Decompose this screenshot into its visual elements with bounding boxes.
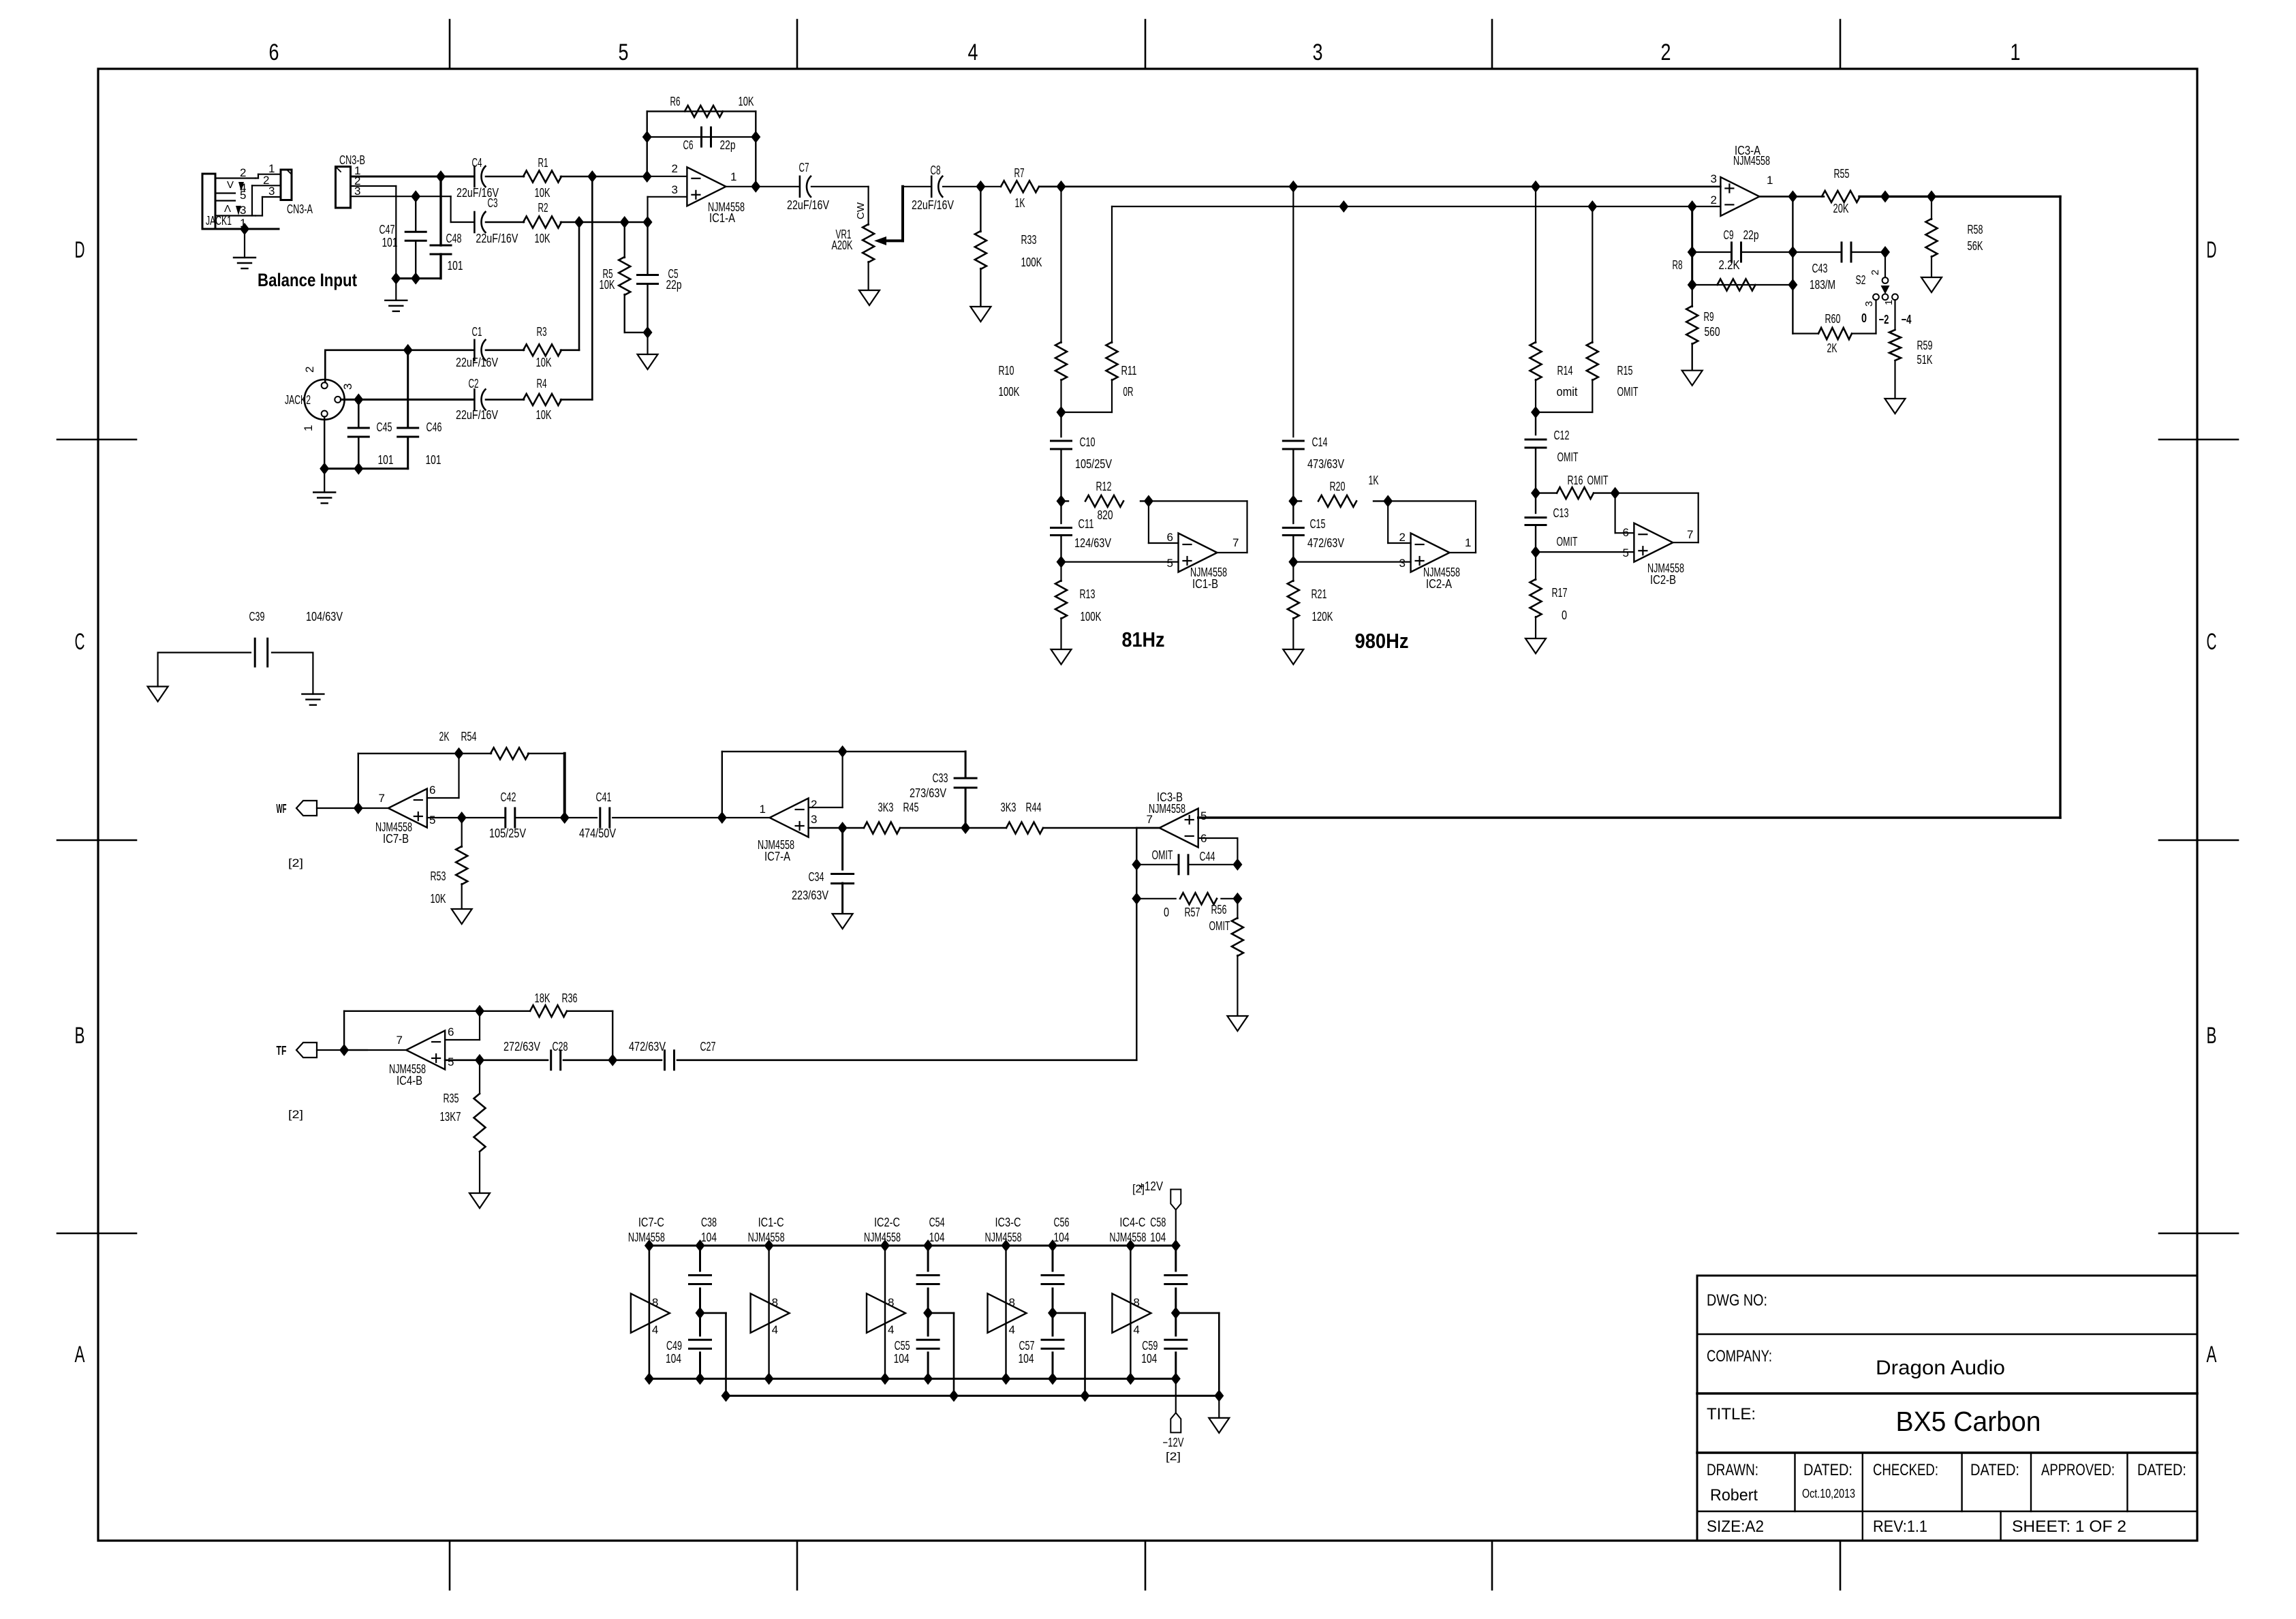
svg-text:R54: R54 xyxy=(461,730,477,743)
svg-text:[2]: [2] xyxy=(288,1108,303,1121)
resistor R59 xyxy=(1894,300,1895,330)
svg-text:100K: 100K xyxy=(999,385,1020,399)
S2 arrow xyxy=(1881,286,1890,294)
svg-text:100K: 100K xyxy=(1021,256,1042,269)
svg-text:IC1-C: IC1-C xyxy=(758,1216,784,1229)
resistor R56 xyxy=(1237,899,1238,919)
capacitor C54 xyxy=(917,1274,939,1276)
svg-text:R53: R53 xyxy=(431,869,446,883)
capacitor C8 xyxy=(903,186,931,187)
svg-text:4: 4 xyxy=(1009,1323,1015,1336)
junction gnd net b xyxy=(411,273,420,285)
svg-text:C59: C59 xyxy=(1142,1339,1158,1353)
svg-text:A20K: A20K xyxy=(832,238,853,252)
svg-text:6: 6 xyxy=(1167,531,1173,544)
junction C55 bottom xyxy=(923,1372,933,1385)
wire C58 mid jog xyxy=(1176,1312,1220,1314)
connector JACK2 xyxy=(305,380,345,420)
svg-text:7: 7 xyxy=(1687,528,1693,541)
junction IC3-C top xyxy=(1002,1239,1011,1252)
svg-text:NJM4558: NJM4558 xyxy=(748,1231,785,1244)
wire CN3-B pin1 to C4 xyxy=(351,176,475,178)
resistor R9 xyxy=(1691,285,1692,307)
junction C59 bottom xyxy=(1171,1372,1181,1385)
junction IC7-A out node xyxy=(717,812,727,824)
svg-text:2: 2 xyxy=(240,166,246,179)
wire IC2-A pin3 xyxy=(1293,561,1410,562)
svg-text:C28: C28 xyxy=(553,1040,568,1053)
wire C38 mid jog xyxy=(700,1312,726,1314)
svg-text:2.2K: 2.2K xyxy=(1719,258,1740,272)
op-amp IC3-C xyxy=(988,1293,1027,1333)
svg-text:R12: R12 xyxy=(1096,480,1112,493)
svg-text:C14: C14 xyxy=(1312,435,1328,449)
svg-text:2: 2 xyxy=(1399,531,1406,544)
junction R35 top xyxy=(475,1054,484,1066)
wire R36 to C28/C27 node xyxy=(567,1011,612,1012)
wire +12V rail xyxy=(649,1245,1176,1247)
svg-text:R45: R45 xyxy=(903,801,919,814)
svg-text:104: 104 xyxy=(1054,1231,1070,1244)
junction pin5 row col3 xyxy=(1531,546,1540,558)
junction C9/C43 node xyxy=(1788,246,1797,258)
wire C58 column xyxy=(1175,1246,1177,1271)
svg-text:223/63V: 223/63V xyxy=(792,889,828,902)
wire R6 top loop xyxy=(647,110,756,112)
svg-text:R8: R8 xyxy=(1673,258,1683,272)
svg-text:7: 7 xyxy=(397,1034,403,1047)
svg-text:2K: 2K xyxy=(439,730,450,743)
svg-text:IC1-B: IC1-B xyxy=(1192,577,1218,591)
capacitor C42 xyxy=(504,808,506,827)
svg-text:C56: C56 xyxy=(1054,1216,1070,1229)
svg-text:C46: C46 xyxy=(426,420,442,434)
wire C6 row xyxy=(647,136,756,138)
ground triangle under C34 xyxy=(833,914,853,929)
op-amp IC7-B xyxy=(388,789,427,828)
svg-text:C1: C1 xyxy=(472,325,482,339)
svg-text:472/63V: 472/63V xyxy=(1307,536,1344,550)
resistor R53 xyxy=(461,818,463,847)
junction C6 left xyxy=(642,131,652,143)
resistor R35 xyxy=(479,1060,480,1094)
svg-text:2: 2 xyxy=(303,367,316,373)
op-amp IC3-B xyxy=(1160,809,1198,848)
resistor R20 xyxy=(1293,500,1301,502)
svg-text:104: 104 xyxy=(1141,1352,1157,1366)
junction pin3/C5 node xyxy=(643,216,653,228)
svg-text:22p: 22p xyxy=(720,138,736,152)
svg-text:2: 2 xyxy=(1661,40,1671,65)
svg-text:R35: R35 xyxy=(444,1092,459,1105)
svg-text:omit: omit xyxy=(1557,385,1578,399)
svg-text:56K: 56K xyxy=(1968,239,1983,253)
svg-text:104: 104 xyxy=(701,1231,717,1244)
op-amp IC2-C power wire xyxy=(884,1246,886,1378)
junction IC2-C bottom xyxy=(880,1372,890,1385)
wire R2 to pin3 node xyxy=(561,221,648,223)
svg-text:0R: 0R xyxy=(1123,385,1134,399)
svg-text:CN3-A: CN3-A xyxy=(287,202,313,216)
junction C38 top xyxy=(696,1239,705,1252)
wire R55 to corner xyxy=(1859,196,2060,198)
junction gnd rail C38 xyxy=(722,1389,731,1402)
capacitor C55 xyxy=(917,1339,939,1341)
svg-text:2: 2 xyxy=(672,162,678,175)
svg-text:3: 3 xyxy=(1313,40,1323,65)
svg-text:R15: R15 xyxy=(1617,364,1633,377)
wire IC4-B out xyxy=(344,1049,406,1051)
capacitor C11 xyxy=(1060,501,1061,523)
connector CN3-B xyxy=(336,167,351,209)
resistor R60 xyxy=(1818,328,1852,339)
junction R2/R3 node xyxy=(574,216,584,228)
wire S2 pin2 stem xyxy=(1884,252,1886,277)
power flag +12V xyxy=(1170,1190,1181,1210)
svg-text:472/63V: 472/63V xyxy=(629,1040,666,1053)
junction bus2 C9 drop xyxy=(1688,200,1697,213)
svg-text:22uF/16V: 22uF/16V xyxy=(912,198,954,212)
ground triangle under R35 xyxy=(469,1193,490,1208)
svg-text:R17: R17 xyxy=(1552,586,1568,600)
svg-text:R33: R33 xyxy=(1021,233,1037,247)
ground triangle under R59 xyxy=(1885,399,1906,414)
svg-text:OMIT: OMIT xyxy=(1209,919,1230,933)
svg-text:1: 1 xyxy=(2011,40,2021,65)
switch S2 pin2 xyxy=(1882,277,1889,283)
junction WF node xyxy=(354,802,363,814)
junction R33 top xyxy=(976,181,985,193)
capacitor C56 xyxy=(1042,1274,1064,1276)
svg-text:V: V xyxy=(227,179,234,191)
resistor R15 xyxy=(1592,206,1593,343)
svg-text:Oct.10,2013: Oct.10,2013 xyxy=(1802,1487,1855,1500)
svg-text:81Hz: 81Hz xyxy=(1122,628,1165,651)
svg-text:R36: R36 xyxy=(562,991,578,1005)
wire C56 mid jog xyxy=(1053,1312,1085,1314)
junction bus1 R14 xyxy=(1531,181,1540,193)
junction pin5 row col1 xyxy=(1057,556,1066,568)
svg-text:104: 104 xyxy=(666,1352,681,1366)
junction C49 bottom xyxy=(696,1372,705,1385)
svg-text:R11: R11 xyxy=(1121,364,1137,377)
svg-text:R56: R56 xyxy=(1211,903,1227,916)
junction IC7-A pin3 node xyxy=(838,822,848,834)
junction gnd rail end xyxy=(1214,1389,1224,1402)
op-amp IC3-A xyxy=(1720,177,1759,216)
svg-text:105/25V: 105/25V xyxy=(489,827,526,840)
wire C27 to IC3-B drop xyxy=(677,1060,1136,1062)
svg-text:OMIT: OMIT xyxy=(1557,535,1578,549)
svg-text:R9: R9 xyxy=(1704,310,1714,324)
svg-text:4: 4 xyxy=(968,40,978,65)
wire C48 to gnd net xyxy=(439,254,441,279)
svg-text:R59: R59 xyxy=(1917,339,1933,352)
svg-text:DATED:: DATED: xyxy=(1970,1461,2019,1479)
svg-text:R6: R6 xyxy=(670,95,681,108)
junction IC1-C top xyxy=(764,1239,774,1252)
op-amp IC3-C power wire xyxy=(1005,1246,1006,1378)
svg-text:OMIT: OMIT xyxy=(1617,385,1639,399)
junction pin3/C45 xyxy=(354,393,363,405)
wire IC2-A feedback loop xyxy=(1388,500,1476,502)
svg-text:C44: C44 xyxy=(1200,850,1215,863)
svg-text:IC4-B: IC4-B xyxy=(397,1074,422,1088)
wire R4 riser xyxy=(561,399,592,401)
wire IC3-B out drop xyxy=(1136,827,1160,829)
wire R57 row xyxy=(1136,898,1175,899)
ground triangle under R9 xyxy=(1682,371,1703,386)
junction C54/C55 mid xyxy=(923,1307,933,1319)
wire IC4-B pin6 xyxy=(445,1039,480,1040)
svg-text:8: 8 xyxy=(1133,1296,1139,1309)
wire IC1-B pin6 xyxy=(1148,501,1149,543)
wire R54 loop xyxy=(358,754,359,808)
ground triangle under R17 xyxy=(1525,638,1546,653)
wire CN3-B pin3 run xyxy=(351,196,451,197)
connector CN3-A xyxy=(281,170,292,200)
svg-text:[2]: [2] xyxy=(288,857,303,869)
svg-text:D: D xyxy=(2207,237,2217,263)
wire IC7-B out xyxy=(358,807,388,809)
wire IC4-B pin5 row xyxy=(445,1060,548,1062)
wire pin2 drop xyxy=(351,185,397,187)
svg-text:Balance Input: Balance Input xyxy=(258,270,357,290)
svg-text:2: 2 xyxy=(811,798,817,811)
svg-text:5: 5 xyxy=(240,189,246,202)
junction R16 left xyxy=(1531,487,1540,499)
svg-text:A: A xyxy=(2207,1342,2217,1368)
junction pin6/R36 loop xyxy=(475,1005,484,1017)
wire IC3-A out xyxy=(1759,196,1824,198)
svg-text:COMPANY:: COMPANY: xyxy=(1707,1347,1772,1366)
op-amp IC2-A xyxy=(1411,534,1450,572)
svg-text:DATED:: DATED: xyxy=(2137,1461,2186,1479)
wire IC7-A pin2 xyxy=(809,807,843,808)
ground triangle under C5 xyxy=(647,333,648,354)
svg-text:D: D xyxy=(75,237,85,263)
svg-text:C39: C39 xyxy=(249,610,265,623)
svg-text:C10: C10 xyxy=(1080,435,1096,449)
svg-text:104: 104 xyxy=(1150,1231,1166,1244)
op-amp IC7-C power wire xyxy=(649,1246,650,1378)
svg-text:C45: C45 xyxy=(377,420,392,434)
wire C54 mid jog xyxy=(928,1312,954,1314)
svg-text:22p: 22p xyxy=(666,278,682,292)
svg-text:CW: CW xyxy=(855,202,867,219)
junction TF node xyxy=(339,1044,349,1056)
wire JACK2 pin1 drop xyxy=(324,417,325,469)
svg-text:1K: 1K xyxy=(1015,196,1025,210)
svg-text:3: 3 xyxy=(1711,172,1717,185)
capacitor C44 xyxy=(1178,855,1180,874)
svg-text:B: B xyxy=(2207,1023,2217,1049)
op-amp IC4-B xyxy=(406,1031,445,1070)
resistor R5 xyxy=(624,222,625,258)
capacitor C7 xyxy=(799,176,801,197)
ground earth under C47/C48 xyxy=(395,279,397,300)
svg-text:JACK1: JACK1 xyxy=(206,214,232,228)
port TF xyxy=(296,1043,317,1058)
junction R10/R11 bottom xyxy=(1057,406,1066,418)
svg-text:C42: C42 xyxy=(501,790,516,804)
svg-text:8: 8 xyxy=(772,1296,778,1309)
op-amp IC7-C xyxy=(631,1293,670,1333)
resistor R16 xyxy=(1536,492,1557,493)
svg-text:5: 5 xyxy=(448,1055,454,1068)
wire C2 to R4 xyxy=(486,399,524,401)
wire R5/C5 bottom xyxy=(625,332,648,333)
svg-text:22uF/16V: 22uF/16V xyxy=(456,356,498,369)
ground triangle under R21 xyxy=(1283,649,1303,664)
junction R8 right xyxy=(1788,279,1797,291)
capacitor C9 xyxy=(1731,243,1733,262)
op-amp IC1-A xyxy=(687,167,726,206)
svg-text:0: 0 xyxy=(1164,906,1169,919)
svg-text:1: 1 xyxy=(302,425,315,431)
svg-text:104/63V: 104/63V xyxy=(306,610,343,623)
svg-text:A: A xyxy=(75,1342,85,1368)
svg-text:6: 6 xyxy=(1623,526,1629,539)
svg-text:C47: C47 xyxy=(379,223,395,236)
junction C44 left xyxy=(1132,859,1141,871)
wire C4 to R1 xyxy=(486,176,524,178)
wire C8 to R7 xyxy=(943,186,1000,187)
wire C42 to C41 xyxy=(515,817,597,818)
svg-text:R10: R10 xyxy=(999,364,1014,377)
ground earth under C39 right xyxy=(302,693,324,694)
ground triangle under R53 xyxy=(452,909,472,924)
op-amp IC4-C power wire xyxy=(1130,1246,1131,1378)
svg-text:3: 3 xyxy=(268,185,275,198)
svg-text:−2: −2 xyxy=(1879,313,1889,326)
svg-text:5: 5 xyxy=(619,40,629,65)
capacitor C39 net xyxy=(158,651,251,653)
svg-text:R58: R58 xyxy=(1968,223,1983,236)
junction R20 left xyxy=(1288,495,1298,507)
svg-text:272/63V: 272/63V xyxy=(503,1040,540,1053)
svg-text:IC2-A: IC2-A xyxy=(1426,577,1452,591)
wire IC1-A out xyxy=(726,186,800,187)
svg-text:IC2-B: IC2-B xyxy=(1650,573,1676,587)
svg-text:20K: 20K xyxy=(1833,202,1849,215)
svg-text:10K: 10K xyxy=(431,892,446,906)
svg-text:C8: C8 xyxy=(931,164,941,177)
svg-text:IC2-C: IC2-C xyxy=(874,1216,900,1229)
capacitor C38 xyxy=(689,1274,711,1276)
svg-text:DWG NO:: DWG NO: xyxy=(1707,1291,1767,1310)
resistor R55 xyxy=(1822,191,1860,202)
junction C58 top xyxy=(1171,1239,1181,1252)
svg-text:C2: C2 xyxy=(469,377,479,390)
ground earth under JACK1/CN3-A xyxy=(244,229,245,258)
svg-text:980Hz: 980Hz xyxy=(1355,629,1409,653)
wire C1 row xyxy=(325,349,474,351)
junction R5 top node xyxy=(620,216,630,228)
svg-text:5: 5 xyxy=(1200,810,1207,822)
ground triangle under R58 xyxy=(1921,277,1942,292)
junction pin3/C47 node xyxy=(411,190,420,202)
svg-text:S2: S2 xyxy=(1856,273,1866,287)
svg-text:R14: R14 xyxy=(1557,364,1573,377)
wire C38 column xyxy=(699,1246,701,1271)
wire IC7-A loop xyxy=(722,752,723,818)
ground triangle under R13 xyxy=(1051,649,1072,664)
junction gnd rail C54 xyxy=(949,1389,959,1402)
capacitor C1 xyxy=(474,340,476,360)
wire JACK2 pin3 row xyxy=(341,399,474,401)
svg-text:Dragon Audio: Dragon Audio xyxy=(1876,1357,2005,1379)
capacitor C15 xyxy=(1292,501,1294,523)
resistor R58 xyxy=(1931,196,1932,219)
svg-text:C: C xyxy=(2207,629,2217,655)
junction gnd rail C56 xyxy=(1081,1389,1090,1402)
svg-text:13K7: 13K7 xyxy=(440,1110,461,1124)
resistor R36 xyxy=(530,1005,567,1017)
svg-text:104: 104 xyxy=(894,1352,910,1366)
svg-text:104: 104 xyxy=(929,1231,945,1244)
junction R5/C5 bottom xyxy=(643,326,653,339)
svg-text:OMIT: OMIT xyxy=(1152,848,1173,862)
svg-text:R3: R3 xyxy=(537,325,547,339)
resistor R7 xyxy=(1001,181,1039,192)
svg-text:TF: TF xyxy=(277,1044,287,1058)
svg-text:C7: C7 xyxy=(799,161,809,174)
capacitor C13 xyxy=(1535,493,1536,513)
title block column lines xyxy=(1794,1453,1795,1511)
svg-text:183/M: 183/M xyxy=(1810,278,1835,292)
svg-text:101: 101 xyxy=(426,453,441,467)
svg-text:C12: C12 xyxy=(1554,429,1570,442)
svg-text:2: 2 xyxy=(1870,270,1881,275)
wire WF to IC7-B xyxy=(317,807,360,809)
wire IC7-B pin6 xyxy=(427,797,459,799)
junction R53 top xyxy=(457,812,467,824)
junction C6 right xyxy=(751,131,760,143)
op-amp IC7-A xyxy=(770,799,809,837)
capacitor C58 xyxy=(1165,1274,1187,1276)
svg-text:7: 7 xyxy=(1232,536,1239,549)
svg-text:100K: 100K xyxy=(1081,610,1102,623)
junction IC4-C bottom xyxy=(1126,1372,1135,1385)
svg-text:3: 3 xyxy=(240,204,246,217)
svg-text:C: C xyxy=(75,629,85,655)
svg-text:C54: C54 xyxy=(929,1216,945,1229)
wire ground rail xyxy=(726,1395,1220,1397)
svg-text:R20: R20 xyxy=(1330,480,1346,493)
junction C9 row left xyxy=(1688,246,1697,258)
wire IC2-A pin2 xyxy=(1387,501,1389,543)
junction bus2 R19 xyxy=(1339,200,1348,213)
svg-text:OMIT: OMIT xyxy=(1557,450,1579,464)
svg-text:22uF/16V: 22uF/16V xyxy=(787,198,829,212)
wire C54 column xyxy=(927,1246,929,1271)
wire R54 to C42/C41 node xyxy=(528,753,565,754)
wire IC3-B pin6 xyxy=(1198,837,1238,839)
svg-text:R21: R21 xyxy=(1312,587,1327,601)
svg-text:C57: C57 xyxy=(1019,1339,1035,1353)
junction C56 top xyxy=(1048,1239,1057,1252)
junction JACK1 ground node xyxy=(240,223,249,235)
svg-text:C41: C41 xyxy=(596,790,612,804)
potentiometer VR1 xyxy=(863,224,874,262)
wire R1 to IC1-A pin2 xyxy=(561,176,647,178)
svg-text:C27: C27 xyxy=(700,1040,716,1053)
svg-text:IC7-B: IC7-B xyxy=(383,832,409,846)
svg-text:C34: C34 xyxy=(809,870,824,884)
resistor R6 xyxy=(685,106,723,117)
junction R57 left xyxy=(1132,893,1141,905)
